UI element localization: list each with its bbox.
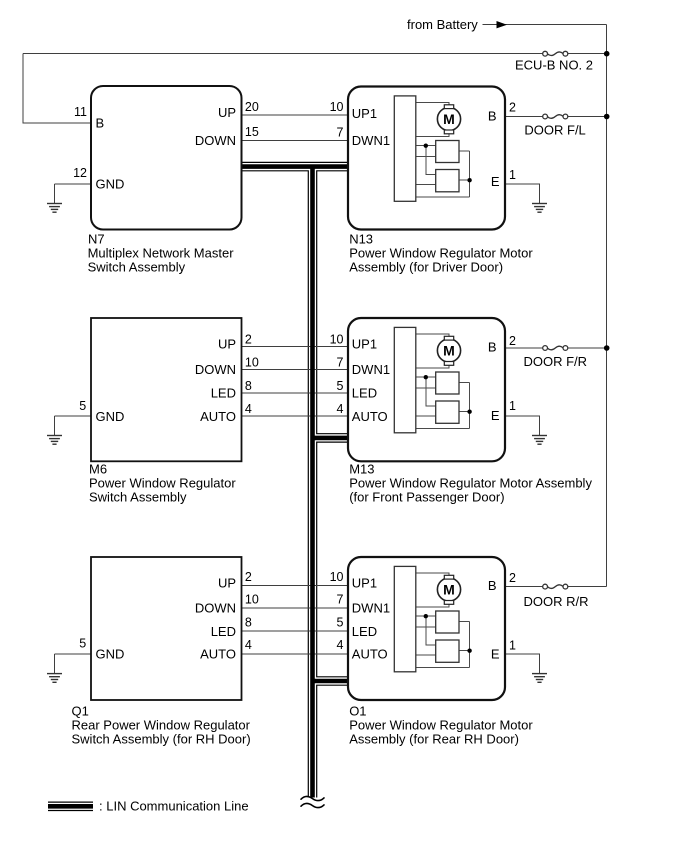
motor M13 box (348, 318, 505, 461)
pin numbers O1 (330, 570, 516, 653)
svg-text:10: 10 (245, 356, 259, 370)
label block M13 (349, 462, 592, 505)
svg-text:M: M (443, 111, 455, 127)
svg-text:: LIN Communication Line: : LIN Communication Line (99, 799, 249, 814)
svg-text:1: 1 (509, 168, 516, 182)
svg-text:GND: GND (96, 409, 125, 424)
svg-text:15: 15 (245, 125, 259, 139)
svg-text:UP: UP (218, 576, 236, 591)
svg-text:UP: UP (218, 336, 236, 351)
motor internals M13 (394, 327, 472, 432)
wire UP row2 M6 to M13 (241, 345, 348, 347)
svg-text:10: 10 (245, 592, 259, 606)
svg-text:Switch Assembly: Switch Assembly (89, 489, 187, 504)
label block Q1 (72, 704, 251, 747)
svg-text:DOOR R/R: DOOR R/R (524, 594, 589, 609)
svg-text:LED: LED (352, 624, 377, 639)
wire N7 GND pin 12 (55, 184, 92, 204)
svg-text:UP1: UP1 (352, 106, 377, 121)
svg-text:Power Window Regulator Motor A: Power Window Regulator Motor Assembly (349, 476, 592, 491)
svg-text:2: 2 (509, 101, 516, 115)
svg-text:Rear Power Window Regulator: Rear Power Window Regulator (72, 718, 251, 733)
LIN bus outer outline strokes (48, 167, 348, 807)
switch M6 box (91, 318, 242, 461)
svg-text:10: 10 (330, 332, 344, 346)
svg-text:E: E (491, 174, 500, 189)
svg-text:M6: M6 (89, 462, 107, 477)
svg-text:2: 2 (509, 571, 516, 585)
fuse DOOR F/L (543, 114, 568, 119)
svg-text:UP: UP (218, 105, 236, 120)
svg-text:DOWN: DOWN (195, 362, 236, 377)
switch Q1 box (91, 557, 242, 700)
svg-text:E: E (491, 647, 500, 662)
svg-text:Power Window Regulator: Power Window Regulator (89, 476, 236, 491)
pin labels O1 (352, 576, 500, 662)
svg-text:(for Front Passenger Door): (for Front Passenger Door) (349, 489, 504, 504)
svg-text:5: 5 (79, 399, 86, 413)
svg-text:from Battery: from Battery (407, 17, 478, 32)
svg-text:B: B (488, 340, 497, 355)
wire UP row3 Q1 to O1 (241, 585, 348, 587)
LIN bus white core strokes (48, 167, 348, 807)
junction DOOR F/L / battery line (604, 114, 610, 120)
svg-text:4: 4 (337, 638, 344, 652)
svg-text:DWN1: DWN1 (352, 600, 390, 615)
svg-text:Power Window Regulator Motor: Power Window Regulator Motor (349, 246, 533, 261)
svg-text:UP1: UP1 (352, 576, 377, 591)
svg-text:AUTO: AUTO (200, 409, 236, 424)
pin numbers M13 (330, 332, 516, 416)
pin labels Q1 (96, 576, 237, 662)
svg-text:O1: O1 (349, 704, 366, 719)
ground M13 E (532, 436, 547, 445)
label block N13 (349, 232, 533, 275)
wire M6 GND pin 5 (55, 416, 92, 436)
pin labels M6 (96, 336, 237, 423)
svg-text:1: 1 (509, 639, 516, 653)
LIN bus break squiggle (301, 796, 324, 807)
wire from Battery arrow line (483, 24, 607, 26)
fuse DOOR F/R (543, 346, 568, 351)
svg-text:DOOR F/L: DOOR F/L (524, 123, 585, 138)
ground M6 GND (47, 436, 62, 445)
pin labels N7 (96, 105, 237, 192)
wire DOWN row1 N7 to N13 (241, 139, 348, 141)
wire M13 B pin to DOOR F/R fuse (505, 347, 607, 349)
svg-text:12: 12 (73, 166, 87, 180)
svg-text:E: E (491, 408, 500, 423)
wire N13 E pin to ground (505, 184, 540, 204)
pin numbers N7 (73, 100, 259, 180)
motor internals N13 (394, 96, 472, 201)
svg-text:DOWN: DOWN (195, 133, 236, 148)
pin labels N13 (352, 106, 500, 189)
ground N7 GND (47, 204, 62, 213)
svg-text:8: 8 (245, 379, 252, 393)
svg-text:LED: LED (211, 385, 236, 400)
pin labels M13 (352, 336, 500, 423)
svg-text:UP1: UP1 (352, 336, 377, 351)
wire LED row2 M6 to M13 (241, 392, 348, 394)
svg-text:DOOR F/R: DOOR F/R (524, 354, 588, 369)
wire DOWN row2 M6 to M13 (241, 369, 348, 371)
switch N7 box (91, 86, 242, 230)
svg-text:DWN1: DWN1 (352, 133, 390, 148)
svg-text:ECU-B NO. 2: ECU-B NO. 2 (515, 58, 593, 73)
pin numbers Q1 (79, 570, 259, 652)
wire O1 E pin to ground (505, 654, 540, 674)
ground N13 E (532, 204, 547, 213)
svg-text:GND: GND (96, 177, 125, 192)
junction DOOR F/R / battery line (604, 345, 610, 351)
svg-text:2: 2 (245, 333, 252, 347)
svg-text:AUTO: AUTO (352, 409, 388, 424)
svg-text:7: 7 (337, 356, 344, 370)
svg-text:7: 7 (337, 592, 344, 606)
motor N13 box (348, 87, 505, 230)
wire AUTO row2 M6 to M13 (241, 415, 348, 417)
fuse ECU-B NO. 2 (543, 51, 568, 56)
wire UP row1 N7 to N13 (241, 114, 348, 116)
motor O1 box (348, 557, 505, 700)
wire left feed down to N7 pin 11 (23, 54, 91, 123)
svg-text:4: 4 (245, 638, 252, 652)
wire battery vertical feed right side (606, 25, 608, 587)
svg-text:Q1: Q1 (72, 704, 89, 719)
svg-text:B: B (96, 116, 105, 131)
label block N7 (88, 232, 235, 275)
svg-text:N13: N13 (349, 232, 373, 247)
svg-text:Multiplex Network Master: Multiplex Network Master (88, 246, 235, 261)
svg-text:4: 4 (245, 402, 252, 416)
svg-text:LED: LED (352, 385, 377, 400)
svg-text:B: B (488, 578, 497, 593)
wire AUTO row3 Q1 to O1 (241, 653, 348, 655)
svg-text:Assembly (for Driver Door): Assembly (for Driver Door) (349, 259, 503, 274)
svg-text:DWN1: DWN1 (352, 362, 390, 377)
svg-text:B: B (488, 109, 497, 124)
svg-text:10: 10 (330, 100, 344, 114)
svg-text:N7: N7 (88, 232, 105, 247)
svg-text:20: 20 (245, 100, 259, 114)
svg-text:5: 5 (337, 379, 344, 393)
svg-text:LED: LED (211, 624, 236, 639)
svg-text:8: 8 (245, 616, 252, 630)
LIN bus inner thick strokes (48, 167, 348, 807)
ground O1 E (532, 674, 547, 683)
svg-text:2: 2 (509, 334, 516, 348)
svg-text:1: 1 (509, 399, 516, 413)
wire N13 B pin to DOOR F/L fuse (505, 116, 607, 118)
wire O1 B pin to DOOR R/R fuse (505, 586, 607, 588)
svg-text:AUTO: AUTO (200, 647, 236, 662)
svg-text:Assembly (for Rear RH Door): Assembly (for Rear RH Door) (349, 731, 519, 746)
svg-text:10: 10 (330, 570, 344, 584)
pin numbers N13 (330, 100, 516, 182)
ground Q1 GND (47, 674, 62, 683)
svg-text:Switch Assembly: Switch Assembly (88, 259, 186, 274)
svg-text:11: 11 (74, 105, 87, 119)
label block O1 (349, 704, 533, 747)
svg-text:5: 5 (337, 616, 344, 630)
wire LED row3 Q1 to O1 (241, 630, 348, 632)
pin numbers M6 (79, 333, 259, 416)
label block M6 (89, 462, 236, 505)
arrowhead from Battery (497, 21, 508, 28)
fuse DOOR R/R (543, 584, 568, 589)
motor internals O1 (394, 566, 472, 671)
wire DOWN row3 Q1 to O1 (241, 607, 348, 609)
svg-text:Power Window Regulator Motor: Power Window Regulator Motor (349, 718, 533, 733)
wire M13 E pin to ground (505, 416, 540, 436)
svg-text:4: 4 (337, 402, 344, 416)
svg-text:M13: M13 (349, 462, 374, 477)
junction ECU-B feed / battery line (604, 51, 610, 57)
svg-text:DOWN: DOWN (195, 600, 236, 615)
svg-text:AUTO: AUTO (352, 647, 388, 662)
svg-text:5: 5 (79, 636, 86, 650)
wire Q1 GND pin 5 (55, 654, 92, 674)
svg-text:2: 2 (245, 570, 252, 584)
svg-text:Switch Assembly (for RH Door): Switch Assembly (for RH Door) (72, 731, 251, 746)
wire ECU-B fuse feed line top (23, 53, 607, 55)
svg-text:7: 7 (337, 125, 344, 139)
svg-text:GND: GND (96, 647, 125, 662)
